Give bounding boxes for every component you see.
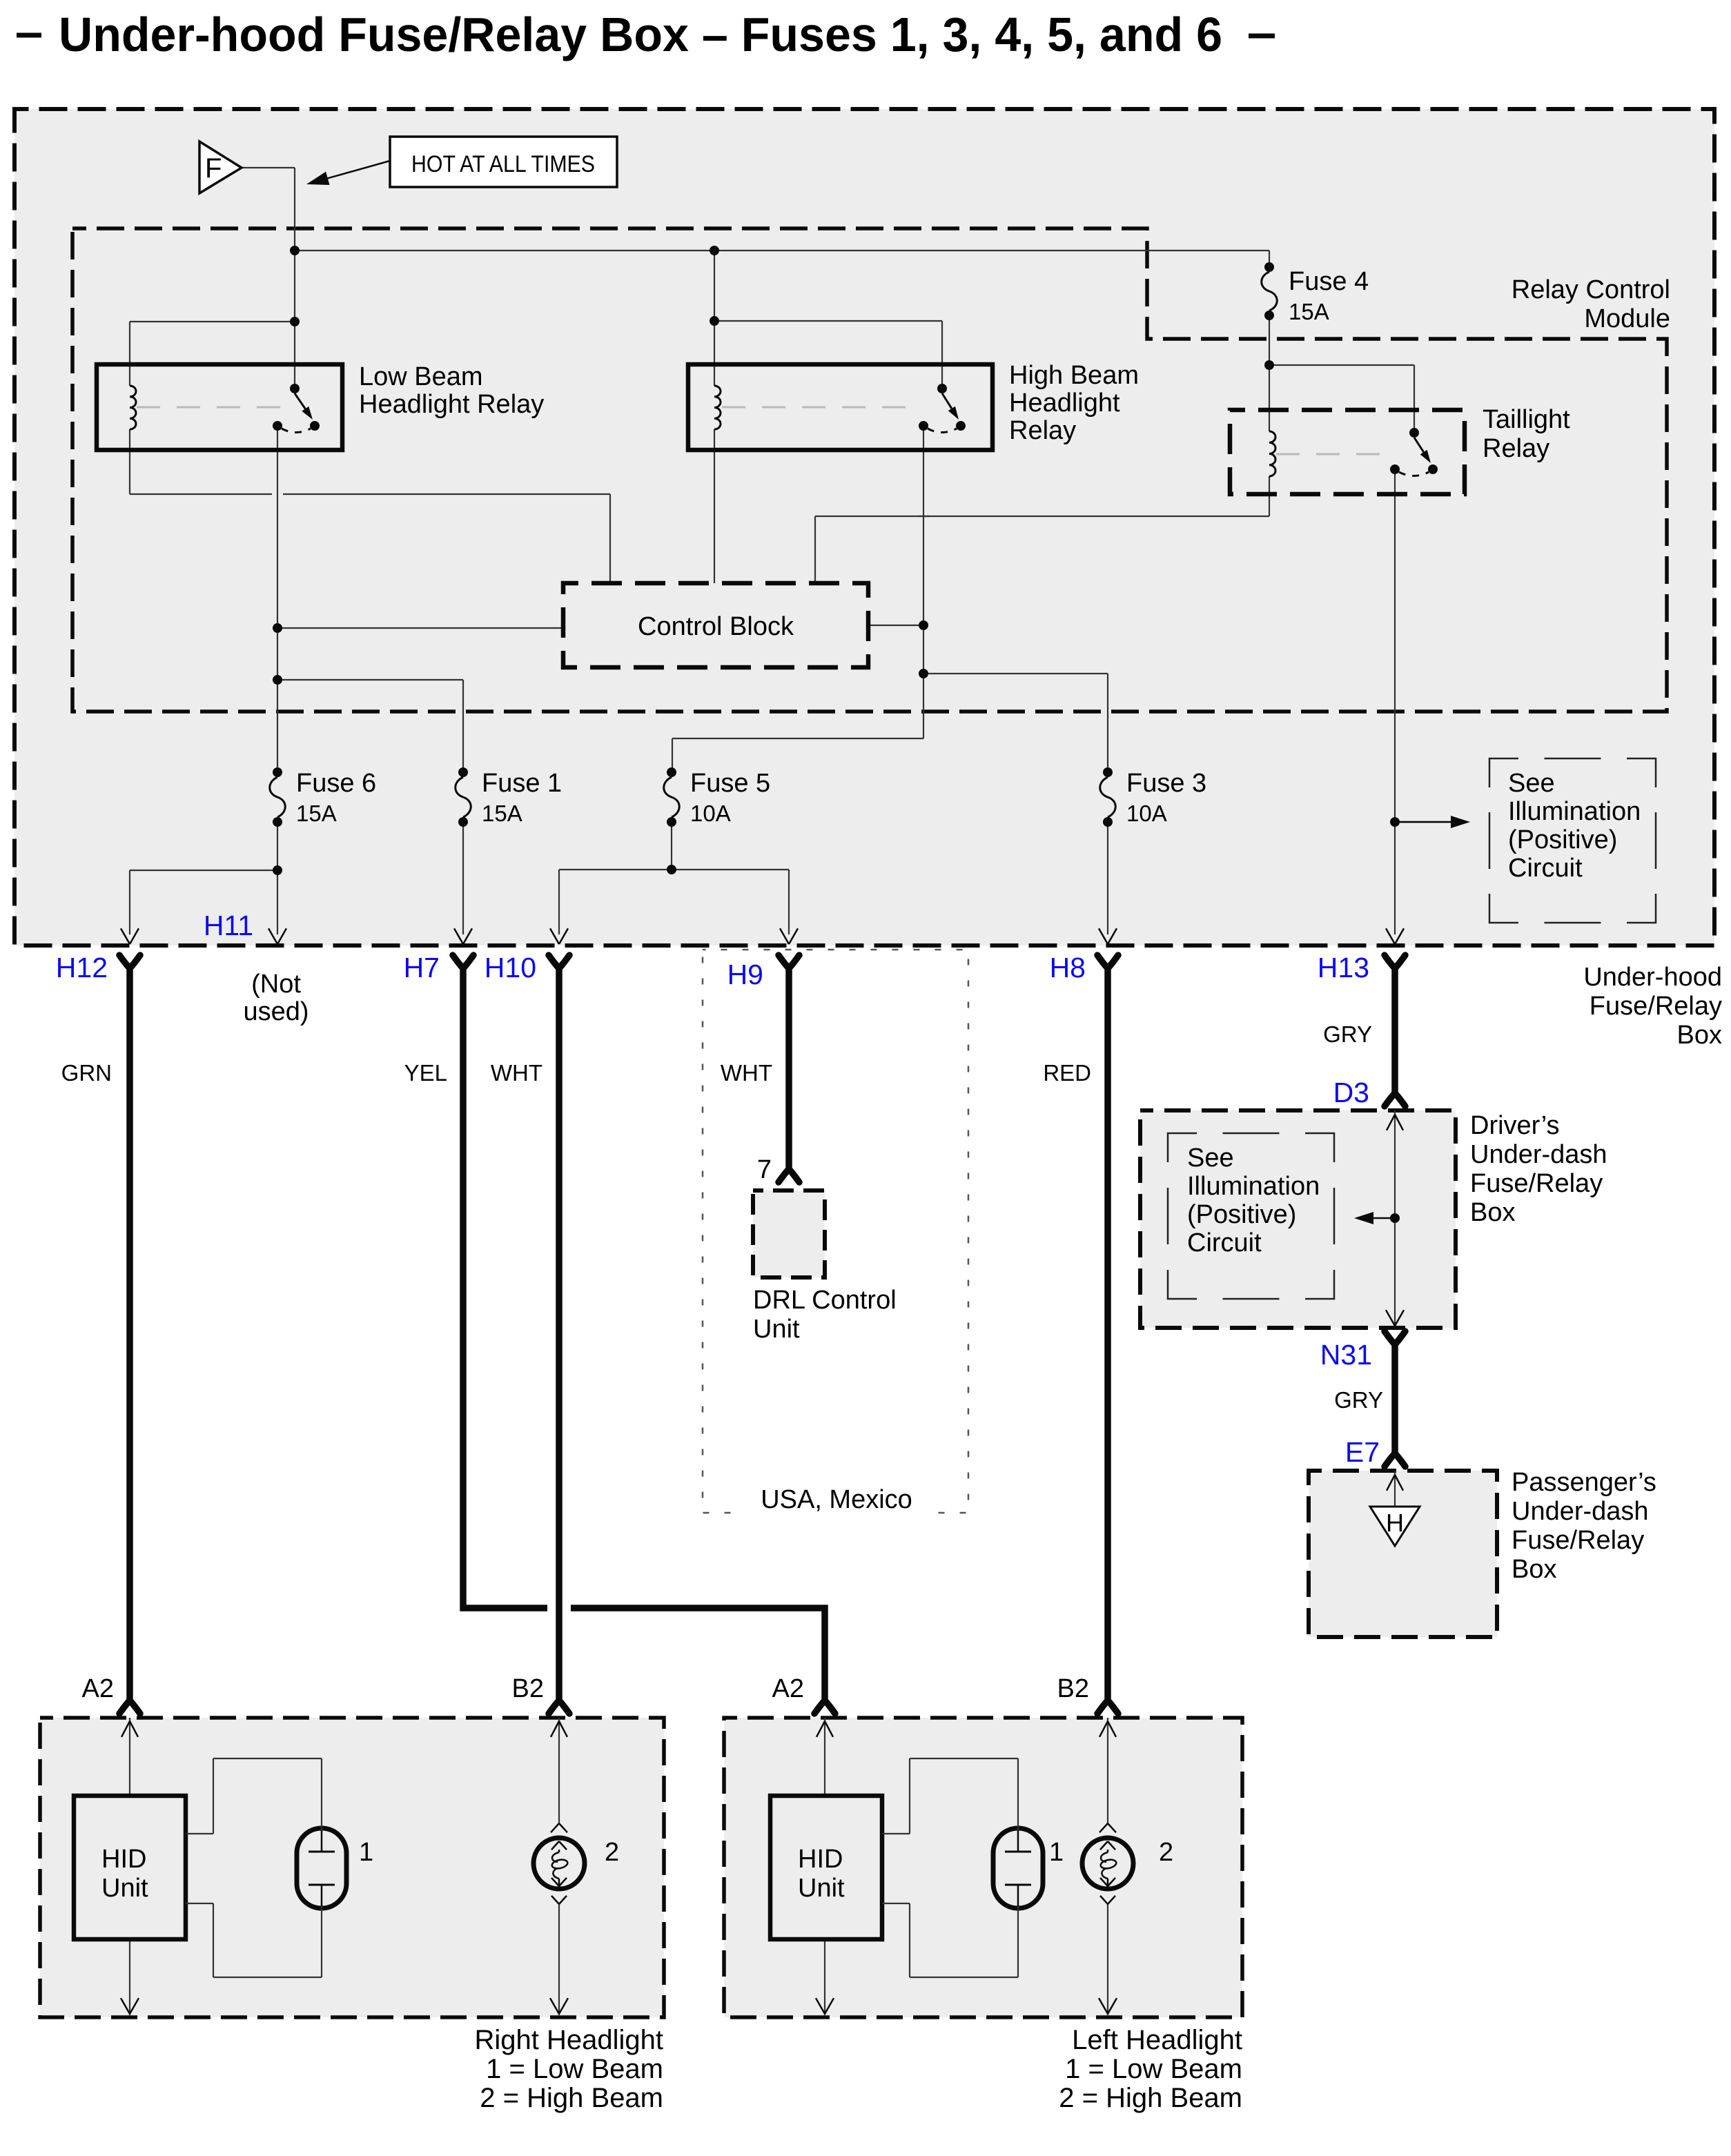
svg-text:Fuse 1: Fuse 1 [482, 769, 562, 798]
svg-text:H10: H10 [485, 952, 536, 983]
svg-text:Circuit: Circuit [1508, 854, 1583, 883]
svg-text:F: F [205, 153, 222, 184]
svg-text:H11: H11 [204, 910, 253, 941]
svg-text:1: 1 [1049, 1838, 1064, 1867]
svg-text:Driver’s: Driver’s [1470, 1111, 1560, 1140]
svg-text:2: 2 [1159, 1838, 1173, 1867]
svg-text:N31: N31 [1320, 1339, 1372, 1371]
svg-text:Circuit: Circuit [1187, 1228, 1262, 1257]
svg-text:HID: HID [798, 1845, 843, 1874]
svg-text:H8: H8 [1050, 952, 1086, 983]
svg-text:Box: Box [1470, 1198, 1515, 1227]
svg-text:H9: H9 [727, 959, 763, 990]
svg-text:15A: 15A [482, 801, 522, 826]
svg-text:15A: 15A [1289, 299, 1329, 324]
svg-text:(Positive): (Positive) [1508, 825, 1617, 854]
svg-text:USA, Mexico: USA, Mexico [761, 1485, 912, 1514]
svg-text:High Beam: High Beam [1009, 361, 1139, 390]
svg-text:Box: Box [1677, 1021, 1722, 1050]
svg-text:Headlight: Headlight [1009, 389, 1120, 418]
svg-text:GRN: GRN [61, 1060, 112, 1086]
svg-text:15A: 15A [296, 801, 337, 826]
svg-text:Fuse 3: Fuse 3 [1126, 769, 1206, 798]
svg-text:H: H [1386, 1509, 1404, 1537]
svg-text:YEL: YEL [404, 1060, 447, 1086]
svg-text:Headlight Relay: Headlight Relay [359, 390, 544, 419]
svg-text:2: 2 [605, 1838, 619, 1867]
svg-text:10A: 10A [1126, 801, 1167, 826]
svg-text:WHT: WHT [491, 1060, 542, 1086]
svg-text:A2: A2 [82, 1674, 114, 1703]
svg-text:Fuse 6: Fuse 6 [296, 769, 376, 798]
svg-text:Under-hood: Under-hood [1583, 963, 1722, 992]
svg-text:2 = High Beam: 2 = High Beam [480, 2083, 663, 2113]
svg-text:See: See [1508, 769, 1555, 798]
svg-text:D3: D3 [1333, 1077, 1369, 1108]
svg-text:10A: 10A [690, 801, 731, 826]
svg-text:GRY: GRY [1323, 1021, 1372, 1047]
svg-text:Module: Module [1584, 304, 1670, 333]
svg-text:Relay: Relay [1483, 434, 1549, 463]
svg-text:Unit: Unit [798, 1874, 845, 1903]
svg-text:Control Block: Control Block [638, 612, 794, 641]
svg-text:HOT AT ALL TIMES: HOT AT ALL TIMES [411, 151, 595, 177]
svg-text:Illumination: Illumination [1187, 1172, 1320, 1201]
svg-text:See: See [1187, 1144, 1234, 1173]
svg-text:Fuse/Relay: Fuse/Relay [1590, 992, 1722, 1021]
svg-text:Relay Control: Relay Control [1512, 275, 1670, 304]
svg-text:A2: A2 [772, 1674, 804, 1703]
svg-text:Left Headlight: Left Headlight [1072, 2025, 1242, 2055]
svg-text:Under-dash: Under-dash [1512, 1497, 1649, 1526]
svg-text:Relay: Relay [1009, 416, 1076, 445]
svg-text:H7: H7 [404, 952, 440, 983]
svg-text:H12: H12 [56, 952, 108, 983]
svg-text:Fuse/Relay: Fuse/Relay [1470, 1169, 1603, 1198]
svg-text:(Positive): (Positive) [1187, 1200, 1296, 1229]
svg-text:DRL Control: DRL Control [753, 1286, 897, 1315]
svg-text:Taillight: Taillight [1483, 405, 1570, 434]
svg-text:1 = Low Beam: 1 = Low Beam [1065, 2054, 1242, 2084]
svg-text:B2: B2 [512, 1674, 544, 1703]
svg-text:2 = High Beam: 2 = High Beam [1059, 2083, 1242, 2113]
svg-text:7: 7 [757, 1155, 772, 1184]
svg-text:RED: RED [1043, 1060, 1091, 1086]
svg-text:1: 1 [359, 1838, 373, 1867]
svg-text:GRY: GRY [1334, 1387, 1383, 1413]
svg-text:used): used) [243, 997, 309, 1026]
svg-text:Right Headlight: Right Headlight [475, 2025, 664, 2055]
svg-text:Fuse 5: Fuse 5 [690, 769, 770, 798]
svg-text:Box: Box [1512, 1555, 1556, 1584]
svg-text:Under-hood Fuse/Relay Box – Fu: Under-hood Fuse/Relay Box – Fuses 1, 3, … [59, 8, 1222, 61]
svg-text:B2: B2 [1057, 1674, 1089, 1703]
svg-text:Low Beam: Low Beam [359, 362, 483, 391]
svg-text:Fuse/Relay: Fuse/Relay [1512, 1526, 1644, 1555]
svg-text:(Not: (Not [251, 970, 301, 999]
svg-text:E7: E7 [1345, 1436, 1380, 1468]
svg-text:Under-dash: Under-dash [1470, 1140, 1607, 1169]
svg-text:H13: H13 [1318, 952, 1369, 983]
svg-text:WHT: WHT [721, 1060, 772, 1086]
svg-text:Unit: Unit [101, 1874, 148, 1903]
svg-text:Unit: Unit [753, 1315, 800, 1344]
svg-text:1 = Low Beam: 1 = Low Beam [486, 2054, 663, 2084]
svg-text:Passenger’s: Passenger’s [1512, 1468, 1656, 1497]
svg-text:HID: HID [101, 1845, 146, 1874]
svg-text:Illumination: Illumination [1508, 797, 1641, 826]
svg-text:Fuse 4: Fuse 4 [1289, 267, 1369, 296]
